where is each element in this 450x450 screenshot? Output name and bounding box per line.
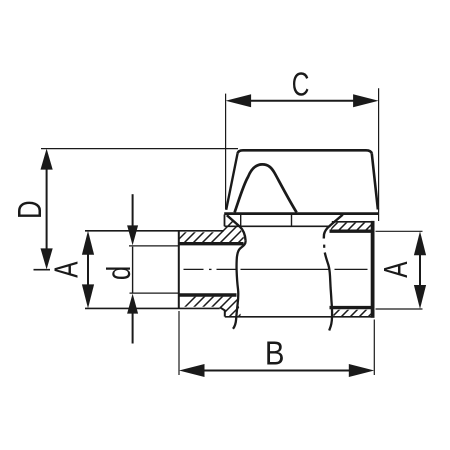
svg-text:D: D [12,200,49,219]
body break line right [325,253,332,331]
dimension A right extension line bottom [376,308,423,310]
handle top edge [238,150,372,153]
handle bottom edge [224,212,378,215]
handle left edge [226,153,237,210]
body break line left [233,241,246,329]
dimension C extension line left [225,94,227,210]
male thread crest top / A extension [85,230,224,232]
svg-text:A: A [379,261,415,278]
stem tick right below handle [291,215,293,227]
body corner stub left [224,215,226,227]
handle right edge [372,154,378,210]
body break line right dot [323,245,325,248]
male thread end face [178,231,180,309]
hatch male bottom [172,292,263,320]
dimension A right line with arrows [414,231,426,309]
male thread crest bottom / A extension [85,307,220,309]
dimension D extension line top [41,148,238,150]
male shoulder slant left [227,215,246,241]
female thread root top (thick) [330,229,373,232]
male thread root top (thick) [179,242,244,245]
dimension B extension line right [373,320,375,376]
dimension d arrows and lines [127,194,138,343]
svg-text:C: C [292,67,310,103]
hatch female bottom [330,305,380,319]
dimension B line with arrows [179,364,374,377]
shoulder slant right [324,215,343,239]
centerline tick at D [34,269,51,271]
hatch male top [172,220,270,248]
dimension d extension line top [129,245,178,247]
centerline [184,268,368,270]
dimension D line with arrows [41,149,53,270]
body top edge [225,225,331,227]
dimension A right extension line top [376,230,423,232]
handle inner bell [235,164,297,212]
svg-text:B: B [265,335,285,372]
female end face (thick) [371,221,375,318]
hatch female top [328,218,378,232]
male bottom transition [220,307,225,316]
dimension C extension line right [378,88,380,221]
body bottom edge [225,316,375,318]
male thread root bottom (thick) [179,293,237,296]
female end outer top edge [332,221,375,223]
dimension B extension line left [178,311,180,375]
svg-text:A: A [49,261,85,278]
dimension A left line with arrows [82,231,94,309]
female thread root bottom (thick) [330,306,373,309]
stem tick left below handle [240,215,242,227]
dimension d extension line bottom [130,292,179,294]
svg-text:d: d [101,266,138,280]
dimension C line with arrows [226,94,379,107]
